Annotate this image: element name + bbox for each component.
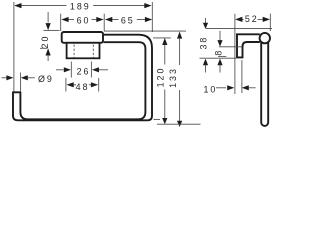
extension line right of circle (269, 14, 271, 31)
dim 20 bottom extension (40, 47, 48, 49)
svg-text:Ø9: Ø9 (38, 74, 54, 84)
short reference line above plate bottom (218, 55, 226, 57)
dim 133 bottom extension (157, 123, 201, 125)
wall plate lower (front view) (67, 43, 100, 59)
extension line plate left (60, 14, 62, 31)
extension line arm bottom corner (8 ref) (219, 46, 242, 48)
dim 26 tails and arrows (56, 69, 64, 71)
svg-text:48: 48 (76, 82, 90, 92)
extension line top of loop (133 ref) (104, 30, 186, 32)
dim 52 arrows (235, 17, 242, 22)
bar cross-section circle (side view) (260, 33, 270, 43)
wire end cap line (front view, left bar top) (12, 91, 21, 93)
svg-text:120: 120 (155, 67, 165, 88)
dim 189 arrows (14, 3, 21, 8)
dim 38 stem and arrows (205, 18, 207, 23)
dim 189 line (21, 5, 67, 7)
dim 120 arrows and line (162, 38, 167, 45)
dim 20 top extension (44, 29, 60, 31)
dim 65 line (111, 19, 119, 21)
side bar tube (vertical, rounded bottom) (261, 40, 268, 126)
wire loop outer outline (front view) (13, 35, 152, 121)
screw centerline right (dashed) (92, 45, 94, 58)
dim 120 bottom extension (154, 118, 161, 120)
dim 65 arrows (105, 17, 112, 22)
svg-text:8: 8 (214, 49, 224, 56)
wall extension line (234, 14, 236, 94)
dim 20 upper stem and arrow (47, 12, 49, 23)
svg-text:133: 133 (168, 67, 178, 88)
screw centerline left (dashed) (73, 45, 75, 58)
extension line loop left bar right side (20, 73, 22, 92)
dim 8 stem and arrows (219, 31, 221, 41)
extension lines 26 (70, 62, 72, 78)
dim 60 arrows (61, 17, 68, 22)
svg-text:60: 60 (77, 15, 91, 25)
dim 52 line (242, 18, 243, 20)
extension line top of side view (under 52) (206, 28, 272, 30)
svg-text:189: 189 (70, 2, 91, 12)
svg-text:20: 20 (40, 35, 50, 49)
extension line plate front (241, 60, 243, 93)
dim 10 tails and arrows (216, 87, 226, 89)
dim 48 line (73, 84, 76, 86)
svg-text:10: 10 (203, 84, 217, 94)
plate and arm silhouette (side view) (237, 34, 260, 57)
mounting plate upper (front view) (62, 32, 103, 43)
wire loop inner outline (front view) (20, 42, 145, 119)
dim diameter 9 tails and arrows (2, 77, 8, 79)
svg-text:26: 26 (77, 66, 91, 76)
svg-text:65: 65 (121, 15, 135, 25)
dim 20 lower arrow and stem (46, 48, 51, 55)
extension lines 48 (65, 78, 67, 92)
svg-text:38: 38 (198, 36, 208, 50)
plate bottom extension line (200, 57, 237, 59)
dim 133 arrows and line (177, 32, 182, 39)
svg-text:52: 52 (245, 14, 259, 24)
extension line plate right (103, 14, 105, 31)
dim 120 top extension (153, 37, 171, 39)
extension line loop left edge (13, 2, 15, 91)
dim 60 line (68, 19, 74, 21)
extension line loop right edge (151, 2, 153, 32)
dim 48 arrows (66, 82, 73, 87)
